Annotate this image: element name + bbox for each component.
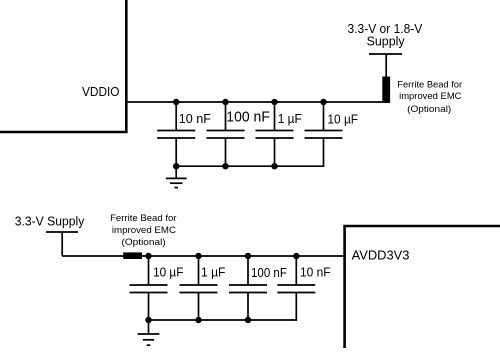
svg-text:Ferrite Bead for: Ferrite Bead for <box>110 212 176 223</box>
svg-text:10 µF: 10 µF <box>153 265 183 280</box>
svg-text:Ferrite Bead for: Ferrite Bead for <box>397 78 462 89</box>
svg-text:10 µF: 10 µF <box>327 111 358 126</box>
svg-text:Supply: Supply <box>367 35 406 49</box>
svg-text:(Optional): (Optional) <box>407 103 451 114</box>
svg-text:1 µF: 1 µF <box>201 265 225 280</box>
svg-text:3.3-V Supply: 3.3-V Supply <box>15 214 85 228</box>
svg-text:AVDD3V3: AVDD3V3 <box>352 248 410 263</box>
svg-text:VDDIO: VDDIO <box>82 84 120 99</box>
svg-text:improved EMC: improved EMC <box>399 90 462 101</box>
svg-text:10 nF: 10 nF <box>300 265 331 280</box>
svg-text:(Optional): (Optional) <box>122 236 166 247</box>
svg-text:1 µF: 1 µF <box>278 111 302 126</box>
svg-text:100 nF: 100 nF <box>251 265 287 280</box>
svg-text:improved EMC: improved EMC <box>112 224 176 235</box>
svg-text:100 nF: 100 nF <box>226 108 270 125</box>
svg-text:10 nF: 10 nF <box>179 111 211 126</box>
